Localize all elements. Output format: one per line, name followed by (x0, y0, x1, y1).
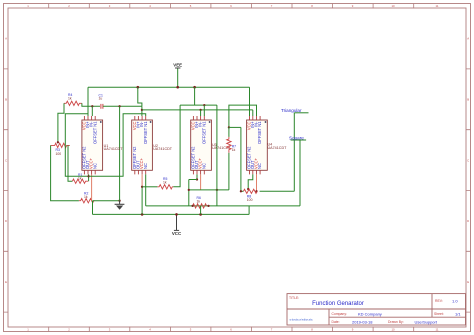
svg-text:OFFSET N1: OFFSET N1 (257, 121, 262, 144)
wire long row to U4 pin2 (252, 110, 254, 116)
wire U3 top row (180, 104, 217, 106)
svg-text:100: 100 (247, 198, 253, 202)
node ground junction (118, 200, 120, 202)
wire square left riser (299, 140, 301, 206)
potentiometer R7 (227, 137, 236, 153)
resistor R8 (243, 189, 257, 202)
node U3 bottom dot (196, 178, 198, 180)
svg-text:VCC: VCC (172, 231, 182, 236)
resistor R2 (79, 192, 95, 203)
svg-text:Date:: Date: (332, 320, 340, 324)
net label Triangular (281, 108, 309, 113)
svg-text:D: D (467, 219, 469, 223)
wire U1 VCC+ red drop (91, 174, 93, 200)
wire U4 VCC+ red drop (256, 174, 258, 191)
wire U3 NC red drop (200, 174, 202, 190)
svg-text:OFFSET N1: OFFSET N1 (92, 121, 97, 144)
svg-text:OFFSET N1: OFFSET N1 (201, 121, 206, 144)
node C1 left dot (91, 105, 93, 107)
svg-text:NC: NC (92, 163, 97, 169)
svg-text:B: B (5, 98, 7, 102)
svg-text:Company:: Company: (332, 312, 348, 316)
wire R4 left to R3 wiper (58, 103, 64, 142)
wire R6 long row (146, 205, 300, 207)
wire U4 out jog to R8 (248, 174, 253, 190)
wire rail link under R6 row (248, 206, 250, 215)
node R5 tap dot (141, 186, 143, 188)
op-amp U2 (132, 116, 173, 174)
svg-text:D: D (5, 219, 7, 223)
wire R5 right up to U3 loop (173, 105, 180, 187)
node R8 right tap dot (255, 190, 257, 192)
op-amp U3 (191, 116, 232, 174)
wire VEE top rail (88, 86, 250, 88)
wire U1 IN- drop (91, 106, 93, 116)
frame row labels (5, 37, 469, 284)
svg-text:NC: NC (257, 163, 262, 169)
wire rail right end to U4 pin1 (249, 87, 251, 116)
svg-text:C: C (467, 158, 469, 162)
svg-text:A: A (467, 37, 469, 41)
svg-text:1/1: 1/1 (455, 311, 461, 316)
svg-text:OFFSET N1: OFFSET N1 (143, 121, 148, 144)
wire U3 left side drop (188, 180, 190, 206)
wire R7 right column down (240, 127, 242, 191)
wire right column (216, 105, 218, 206)
resistor R1 (72, 173, 88, 184)
svg-text:UA741CDT: UA741CDT (153, 147, 173, 151)
svg-text:1k: 1k (163, 181, 167, 185)
wire R6 wiper to rail (200, 206, 202, 215)
node U3 row left dot (188, 189, 190, 191)
wire U3 pin4 drop (203, 105, 205, 116)
svg-text:B: B (467, 98, 469, 102)
wire R7 top branch (229, 126, 241, 128)
svg-text:10: 10 (391, 328, 395, 332)
svg-text:1u: 1u (99, 97, 103, 101)
svg-text:REV:: REV: (435, 299, 443, 303)
node U2 in dot (141, 109, 143, 111)
potentiometer R3 (51, 143, 70, 156)
wire U3 bottom row (189, 179, 197, 181)
node right column dot (216, 189, 218, 191)
svg-text:E: E (467, 280, 469, 284)
potentiometer R6 (191, 196, 209, 208)
resistor R5 (157, 177, 173, 189)
net label Square (289, 136, 306, 141)
wire U3 to right column (189, 189, 229, 191)
wire U2 IN- drop (141, 106, 143, 116)
node R3 wiper dot (57, 141, 59, 143)
wire U1 feedback loop (65, 114, 88, 177)
VCC power flag (172, 214, 182, 236)
svg-text:100: 100 (56, 152, 62, 156)
wire U3 pin3 drop (200, 110, 202, 116)
wire U2 NC down to R6 row (145, 174, 147, 206)
wire U2 VCC+ red drop (141, 174, 143, 186)
wire C1 right to U2 area (103, 105, 142, 107)
wire R2 node to ground node (93, 200, 120, 202)
wire R7 top lead (228, 127, 230, 136)
wire U2 feedback loop (89, 114, 146, 177)
wire rail drop to U2 (138, 87, 142, 106)
wire bottom VCC rail (93, 213, 250, 215)
resistor R4 (64, 93, 82, 106)
wire U3 pin3 bottom drop (196, 174, 198, 179)
svg-text:A: A (5, 37, 7, 41)
svg-text:Square: Square (289, 136, 304, 141)
node U3 pin3 dot (199, 109, 201, 111)
node R8 left dot (240, 190, 242, 192)
svg-text:2019-03-18: 2019-03-18 (352, 319, 373, 324)
svg-text:w.lceda.cn/editor.abc: w.lceda.cn/editor.abc (290, 319, 314, 322)
svg-text:1k: 1k (68, 97, 72, 101)
wire R8 left lead (241, 190, 244, 192)
svg-text:C: C (5, 158, 7, 162)
node U1 out dot (87, 175, 89, 177)
op-amp U4 (246, 116, 287, 174)
svg-text:1.0: 1.0 (452, 298, 458, 303)
svg-text:KD Company: KD Company (358, 311, 382, 316)
node C1 net dot (118, 105, 120, 107)
wire triangular riser (293, 113, 295, 192)
svg-text:UA741CDT: UA741CDT (268, 146, 288, 150)
node R8 tap dot (247, 188, 249, 190)
svg-text:NC: NC (143, 163, 148, 169)
op-amp U1 (82, 116, 124, 174)
wire U4 loop top (229, 105, 257, 127)
wire R8 right to risers (260, 190, 295, 192)
svg-text:10: 10 (391, 4, 395, 8)
wire U1 IN+ from rail (87, 87, 89, 116)
svg-text:VEE: VEE (173, 63, 182, 68)
svg-text:11: 11 (436, 4, 439, 8)
svg-text:11: 11 (436, 328, 439, 332)
wire R1 right up to OUT node (88, 176, 90, 181)
VEE power flag (173, 63, 182, 88)
node R7 top dot (228, 126, 230, 128)
svg-text:Sheet:: Sheet: (434, 312, 444, 316)
wire to R5 (142, 186, 157, 188)
svg-text:NC: NC (201, 163, 206, 169)
title block frame (287, 294, 466, 325)
svg-text:UA741CDT: UA741CDT (104, 147, 124, 151)
node U3 pin4 dot (203, 104, 205, 106)
wire R4 right to C1 row (82, 103, 100, 106)
svg-text:Function Genarator: Function Genarator (312, 301, 364, 307)
wire R3 right lead down to R1 (68, 145, 72, 181)
capacitor C1 (99, 93, 103, 108)
svg-text:UserSupport: UserSupport (415, 319, 438, 324)
title block texts (289, 296, 461, 324)
wire R2 right to bottom rail (92, 201, 94, 215)
wire C1 node down to ground row (119, 106, 121, 200)
ground (115, 201, 125, 210)
svg-text:Drawn By:: Drawn By: (388, 320, 404, 324)
svg-text:TITLE:: TITLE: (289, 296, 299, 300)
wire R3 left down to R2 row (51, 145, 79, 200)
wire U2 VCC+ down to rail (141, 187, 143, 215)
svg-text:Triangular: Triangular (281, 108, 302, 113)
bottom rail junction dots (141, 213, 202, 216)
wire R7 bottom to U3 row (228, 153, 230, 190)
wire rail drop to U3 (194, 87, 196, 105)
svg-text:E: E (5, 280, 7, 284)
svg-text:1k: 1k (197, 200, 201, 204)
wire long mid row (142, 109, 253, 111)
node rail junction dots (137, 86, 196, 89)
